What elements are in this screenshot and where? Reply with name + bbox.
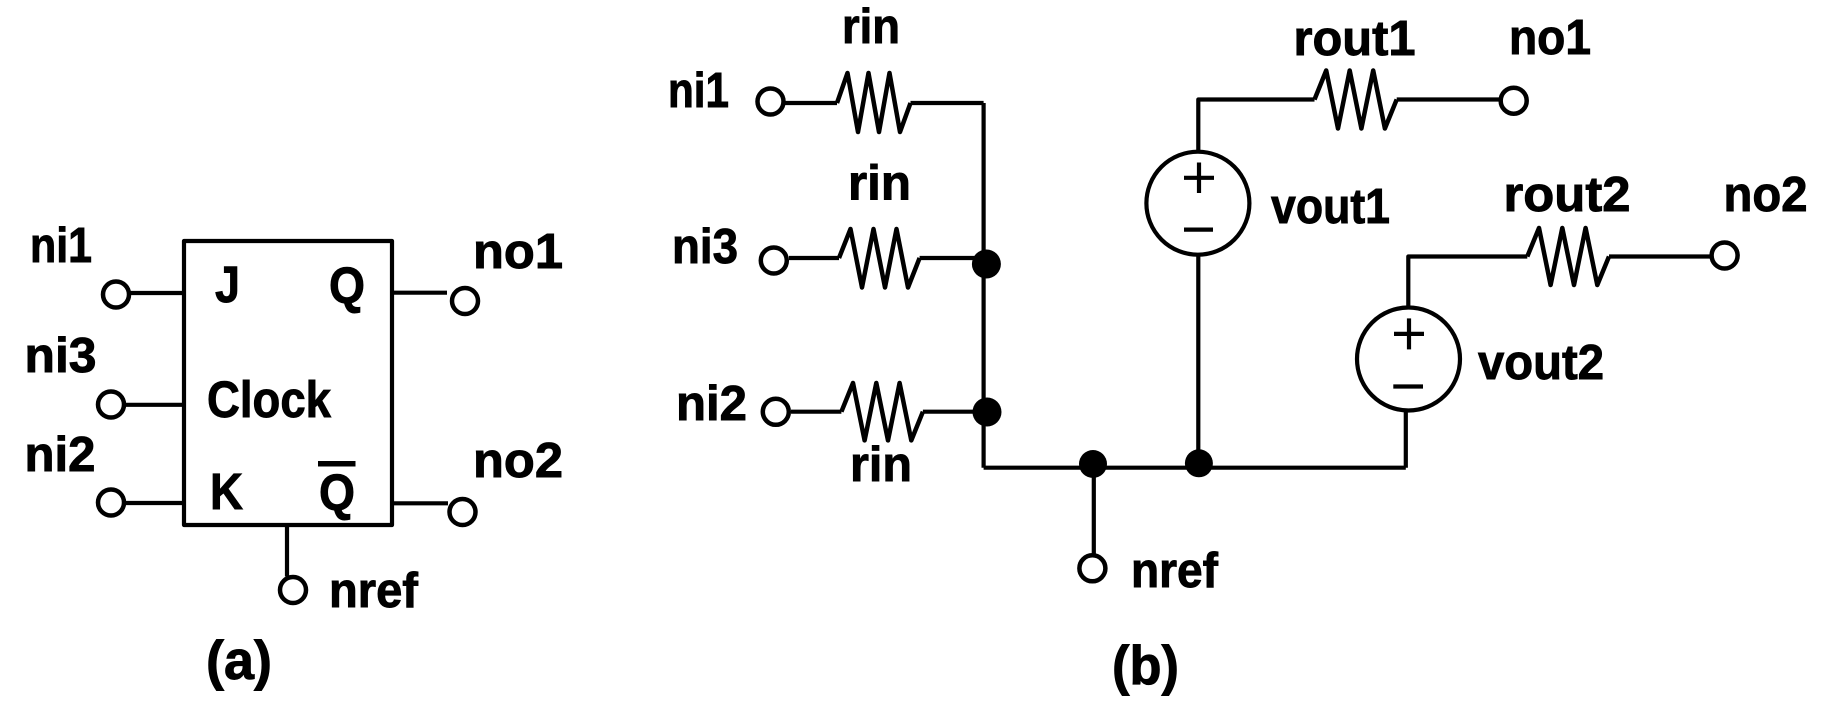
wire ni2 to rin3 (791, 410, 841, 414)
minus sign vout2 (1393, 384, 1423, 388)
svg-text:J: J (215, 256, 240, 313)
terminal ni3 (b) (761, 248, 787, 274)
wire rout1 to no1 (1397, 97, 1499, 101)
svg-text:no2: no2 (1724, 168, 1808, 222)
svg-text:no2: no2 (473, 434, 563, 488)
svg-text:rout1: rout1 (1294, 12, 1416, 66)
wire ni1 to J (130, 291, 184, 295)
resistor rout2 (1527, 228, 1609, 285)
terminal ni3 (a) (98, 392, 124, 418)
svg-text:ni3: ni3 (672, 220, 738, 274)
wire vout1 bottom (1196, 255, 1200, 464)
wire rout2 to no2 (1609, 254, 1710, 258)
svg-text:no1: no1 (1509, 11, 1591, 65)
wire ni1 to rin1 (785, 101, 837, 105)
junction node rin3 (973, 398, 1002, 427)
svg-text:(a): (a) (206, 629, 272, 691)
svg-text:Q: Q (319, 464, 355, 521)
svg-text:nref: nref (329, 564, 419, 618)
wire rin1 to bus (911, 101, 984, 105)
wire ni2 to K (125, 501, 184, 505)
resistor rin (row ni3) (839, 229, 920, 288)
resistor rin (row ni1) (837, 73, 911, 132)
svg-text:(b): (b) (1112, 634, 1179, 696)
svg-text:Clock: Clock (207, 371, 332, 428)
wire nref stub (a) (285, 525, 289, 577)
terminal no1 (a) (452, 288, 478, 314)
voltage source vout2 (1357, 308, 1460, 411)
flip-flop box U1 (184, 241, 392, 525)
resistor rout1 (1315, 71, 1397, 129)
svg-text:Q: Q (329, 257, 365, 314)
svg-text:vout1: vout1 (1271, 180, 1390, 234)
terminal nref (a) (280, 577, 306, 603)
plus sign vout1 (1184, 176, 1214, 180)
svg-text:rin: rin (842, 0, 900, 54)
svg-text:vout2: vout2 (1478, 336, 1604, 390)
junction node vout1 (1185, 449, 1213, 477)
terminal no1 (b) (1501, 88, 1527, 114)
wire rin2 to bus (920, 256, 980, 260)
wire input bus vertical (981, 103, 985, 468)
terminal ni1 (a) (103, 282, 129, 308)
svg-text:rin: rin (848, 157, 911, 211)
terminal ni2 (a) (98, 490, 124, 516)
svg-text:ni1: ni1 (668, 64, 729, 118)
svg-text:rin: rin (850, 438, 912, 492)
junction node nref (1079, 450, 1107, 478)
svg-text:ni3: ni3 (25, 329, 97, 383)
svg-text:K: K (210, 463, 243, 520)
terminal ni2 (b) (763, 399, 789, 425)
wire vout2 bottom (1404, 411, 1408, 468)
resistor rin (row ni2) (841, 383, 923, 440)
terminal ni1 (b) (758, 89, 784, 115)
svg-text:ni1: ni1 (30, 219, 92, 273)
terminal nref (b) (1079, 555, 1105, 581)
svg-text:nref: nref (1131, 544, 1219, 598)
wire ni3 to Clock (125, 403, 184, 407)
wire bottom bus (984, 466, 1406, 470)
wire rin3 to bus (923, 410, 980, 414)
plus sign vout2 (1394, 332, 1424, 336)
wire nref stub (b) (1092, 468, 1096, 555)
svg-text:rout2: rout2 (1504, 168, 1631, 222)
wire Qbar to no2 (392, 501, 448, 505)
svg-text:no1: no1 (473, 225, 563, 279)
wire Q to no1 (392, 291, 447, 295)
voltage source vout1 (1146, 152, 1249, 255)
wire ni3 to rin2 (789, 256, 839, 260)
terminal no2 (b) (1712, 243, 1738, 269)
minus sign vout1 (1184, 228, 1213, 232)
wire vout2 top (1408, 257, 1527, 308)
svg-text:ni2: ni2 (676, 377, 747, 431)
wire vout1 top (1198, 100, 1314, 154)
junction node rin1/rin2 (972, 250, 1001, 279)
terminal no2 (a) (450, 499, 476, 525)
svg-text:ni2: ni2 (25, 428, 96, 482)
